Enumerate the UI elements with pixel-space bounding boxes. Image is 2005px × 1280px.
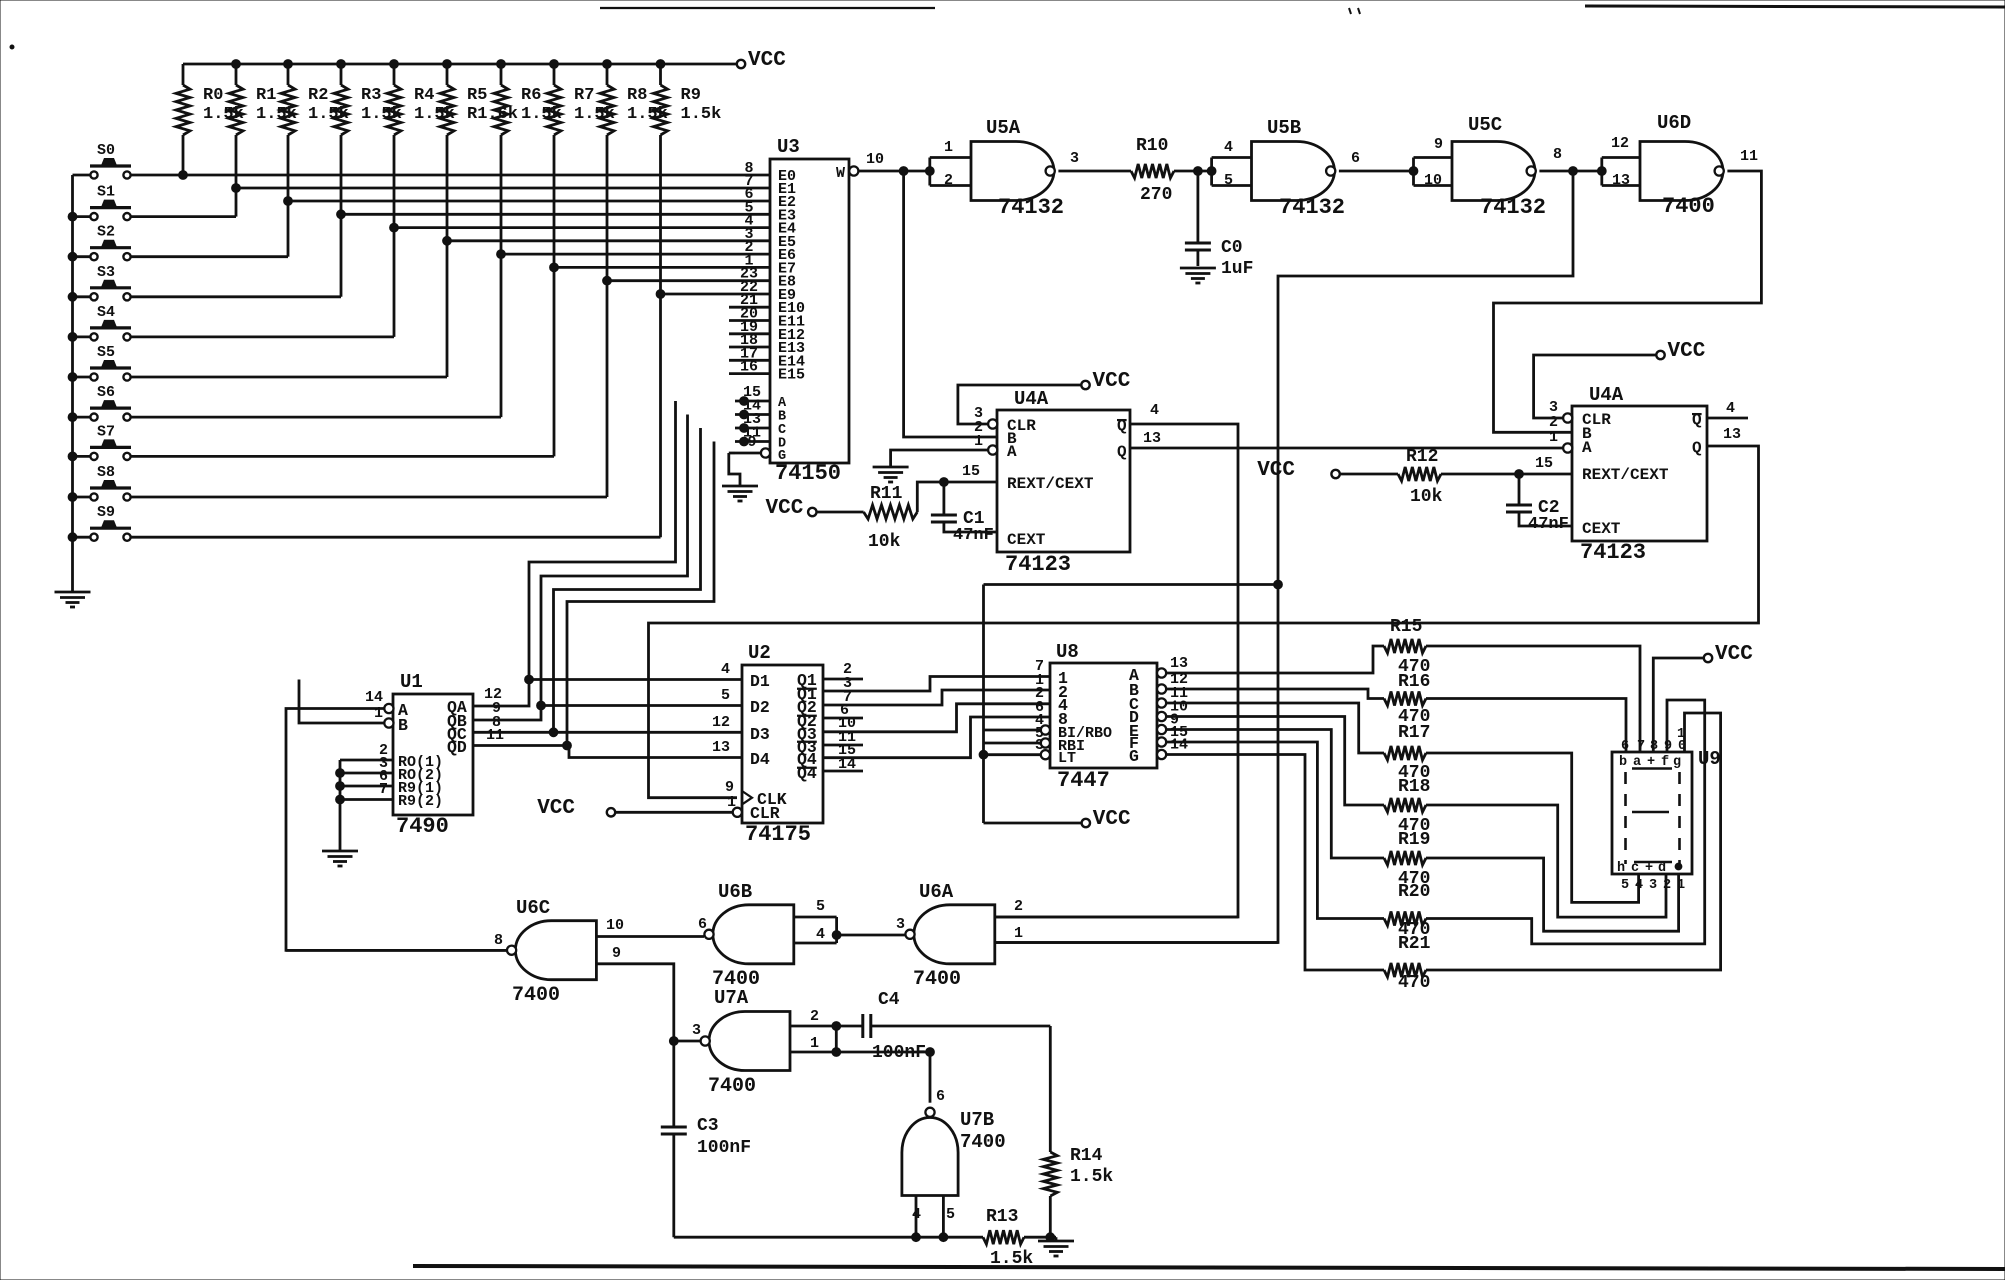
- wire U8 G to R21: [1166, 755, 1384, 971]
- svg-text:R14: R14: [1070, 1146, 1103, 1166]
- wire W output to U5A: [858, 167, 930, 176]
- U3 pin E3 stub (pin 5): [735, 199, 770, 216]
- svg-text:LT: LT: [1058, 750, 1076, 767]
- svg-text:14: 14: [365, 689, 383, 706]
- resistor R5 1.5k: [440, 60, 518, 241]
- svg-text:10: 10: [606, 917, 624, 934]
- U3 pin E2 stub (pin 6): [735, 186, 770, 203]
- wire E6 net (S6/R6 to U3): [131, 250, 735, 417]
- svg-text:10k: 10k: [868, 532, 901, 552]
- wire U8 B to R16: [1166, 689, 1384, 699]
- U1 QB (9) riser: [473, 700, 541, 720]
- svg-text:3: 3: [896, 916, 905, 933]
- NAND gate U7B 7400 (vertical): [902, 1088, 1006, 1196]
- U2 Q1 (2) stub: [823, 678, 863, 681]
- resistor R21 470: [1384, 963, 1426, 977]
- U8 LT (3) wire: [984, 750, 1051, 759]
- U3 pin E10 stub (pin 21): [729, 292, 770, 309]
- wire E5 net (S5/R5 to U3): [131, 236, 735, 377]
- U4A(right) pin B (2): [1549, 414, 1558, 431]
- wire U5B out to U5C: [1339, 170, 1414, 173]
- svg-text:D1: D1: [750, 672, 770, 691]
- switch S8: [73, 464, 132, 501]
- svg-text:U4A: U4A: [1589, 384, 1624, 406]
- capacitor C1 47nF: [931, 482, 997, 545]
- wire E9 net (S9/R9 to U3): [131, 290, 735, 538]
- wire U2 Q1-bar (3) to U8 A: [823, 677, 1050, 692]
- display U9 7-segment: [1612, 727, 1721, 893]
- U3 pin E5 stub (pin 3): [735, 226, 770, 243]
- wire select D net (QD/D4 to U3 D): [563, 442, 742, 758]
- svg-text:QD: QD: [447, 738, 467, 757]
- svg-text:10: 10: [866, 151, 884, 168]
- U6A input 1 (from U5C out): [996, 925, 1278, 943]
- resistor R13 1.5k: [983, 1207, 1050, 1269]
- NAND gate U6D 7400: [1597, 112, 1758, 219]
- NAND gate U5C 74132: [1409, 114, 1562, 220]
- svg-text:C0: C0: [1221, 238, 1243, 258]
- U3 select pin A (15): [735, 384, 770, 405]
- svg-text:74132: 74132: [1480, 195, 1546, 220]
- U8 output D (pin 10) bubble: [1157, 699, 1188, 722]
- U2 Q3-bar (11) stub: [823, 744, 863, 747]
- resistor R9 1.5k: [654, 60, 722, 294]
- U8 output E (pin 9) bubble: [1157, 712, 1179, 735]
- NAND gate U6A 7400 (mirrored): [896, 881, 995, 991]
- svg-text:Q: Q: [1117, 443, 1127, 461]
- resistor R16 470: [1384, 692, 1426, 706]
- wire E0 net (S0/R0 to U3): [131, 171, 735, 180]
- svg-text:5: 5: [816, 898, 825, 915]
- resistor R2 1.5k: [281, 60, 349, 201]
- svg-text:R15: R15: [1390, 617, 1422, 637]
- wire E3 net (S3/R3 to U3): [131, 210, 735, 297]
- U3 pin E15 stub (pin 16): [729, 359, 770, 376]
- U3 pin E9 stub (pin 22): [735, 279, 770, 296]
- U1 QC (8) line = D3: [473, 714, 554, 732]
- svg-text:4: 4: [1726, 400, 1735, 417]
- svg-text:8: 8: [1650, 739, 1658, 754]
- svg-text:R18: R18: [1398, 777, 1430, 797]
- wire U6D out to right U4A B input: [1494, 171, 1762, 432]
- wire U8 C to R17: [1166, 703, 1384, 753]
- svg-text:R21: R21: [1398, 934, 1431, 954]
- wire LT/VCC vertical: [979, 585, 1131, 832]
- svg-text:E15: E15: [778, 367, 805, 384]
- U8 output B (pin 12) bubble: [1157, 671, 1188, 694]
- svg-text:A: A: [1582, 439, 1592, 457]
- wire E1 net (S1/R1 to U3): [131, 184, 735, 217]
- svg-text:6: 6: [698, 916, 707, 933]
- resistor R10 270: [1131, 136, 1174, 205]
- U2 CLR (1) VCC: [537, 797, 742, 820]
- U1 QA (12) to D1 line: [473, 680, 529, 707]
- svg-text:R7: R7: [574, 86, 594, 105]
- svg-text:4: 4: [816, 926, 825, 943]
- wire C4 to R14: [1049, 1026, 1052, 1152]
- NAND gate U6C 7400 (mirrored): [494, 897, 596, 1007]
- IC U4A 74123 (left): [997, 388, 1130, 577]
- wire R16 to display pin6 b: [1426, 699, 1626, 753]
- svg-text:U7A: U7A: [714, 987, 749, 1009]
- svg-text:4: 4: [912, 1206, 921, 1223]
- IC U4A 74123 (right): [1572, 384, 1707, 565]
- svg-text:U9: U9: [1698, 748, 1721, 770]
- svg-text:U4A: U4A: [1014, 388, 1049, 410]
- svg-text:3: 3: [692, 1022, 701, 1039]
- U3 pin E0 stub (pin 8): [735, 160, 770, 177]
- svg-text:7400: 7400: [708, 1075, 756, 1098]
- wire R20 to display pin9 f: [1426, 700, 1705, 944]
- svg-text:B: B: [398, 716, 408, 735]
- resistor R1 1.5k: [229, 60, 297, 188]
- svg-text:U6B: U6B: [718, 881, 752, 903]
- U3 pin E6 stub (pin 2): [735, 239, 770, 256]
- U8 input pin numbers: [1035, 658, 1044, 754]
- resistor R18 470: [1384, 798, 1426, 812]
- svg-text:S1: S1: [97, 184, 115, 201]
- svg-text:74123: 74123: [1005, 552, 1071, 577]
- svg-text:4: 4: [1224, 139, 1233, 156]
- resistor ladder labels: [1390, 617, 1431, 993]
- scan artifact ticks: [1349, 8, 1360, 14]
- wire bottom net C3 to R13: [674, 1236, 983, 1239]
- svg-text:S8: S8: [97, 464, 115, 481]
- resistor R17 470: [1384, 746, 1426, 760]
- svg-text:U2: U2: [748, 642, 771, 664]
- U3 select pin D (11): [735, 425, 770, 446]
- svg-text:S7: S7: [97, 423, 115, 440]
- svg-text:9: 9: [1434, 136, 1443, 153]
- U6B inputs 5/4 tie: [794, 898, 905, 943]
- svg-text:VCC: VCC: [1093, 808, 1131, 831]
- NAND gate U7A 7400 (mirrored): [692, 987, 790, 1098]
- U4A(left) pin B (2) wire from W: [904, 171, 997, 437]
- svg-text:1: 1: [374, 705, 383, 722]
- svg-text:100nF: 100nF: [872, 1043, 926, 1063]
- svg-text:7447: 7447: [1057, 768, 1110, 793]
- U7A output to C3/U6C9 node: [669, 1037, 700, 1046]
- wire R19 to display pin1 e: [1426, 858, 1679, 931]
- svg-text:R9: R9: [681, 86, 701, 105]
- svg-text:11: 11: [486, 727, 504, 744]
- U6C input 9 wire: [596, 945, 673, 1041]
- svg-text:R16: R16: [1398, 672, 1430, 692]
- wire R17 to display pin4 c: [1426, 753, 1639, 902]
- svg-text:7: 7: [379, 781, 388, 798]
- svg-text:U5C: U5C: [1468, 114, 1502, 136]
- svg-text:R0: R0: [203, 86, 223, 105]
- svg-text:2: 2: [810, 1008, 819, 1025]
- svg-text:2: 2: [1663, 878, 1671, 893]
- svg-text:6: 6: [1351, 150, 1360, 167]
- capacitor C3 100nF: [661, 1041, 751, 1237]
- resistor R4 1.5k: [387, 60, 455, 228]
- capacitor C0 1uF: [1185, 171, 1254, 279]
- resistor R6 1.5k: [494, 60, 562, 255]
- svg-text:VCC: VCC: [765, 497, 803, 520]
- svg-text:R2: R2: [308, 86, 328, 105]
- U4A(right) pin A (1): [1549, 429, 1572, 453]
- svg-text:U6A: U6A: [919, 881, 954, 903]
- U4A(right) output Q-bar (4) stub: [1707, 400, 1748, 418]
- wire U8 F to R20: [1166, 742, 1384, 919]
- VCC rail (top): [183, 49, 786, 72]
- svg-text:g: g: [1673, 755, 1681, 770]
- IC U3 74150 multiplexer: [770, 136, 849, 486]
- scan artifact bottom page line: [413, 1266, 2005, 1269]
- svg-text:5: 5: [1621, 878, 1629, 893]
- svg-text:S2: S2: [97, 224, 115, 241]
- svg-text:13: 13: [1170, 655, 1188, 672]
- svg-text:12: 12: [712, 714, 730, 731]
- IC U2 74175 latch: [742, 642, 823, 847]
- switch S3: [73, 264, 132, 301]
- svg-text:4: 4: [1150, 402, 1159, 419]
- svg-text:12: 12: [1611, 135, 1629, 152]
- svg-text:W: W: [836, 165, 845, 182]
- svg-text:1: 1: [1677, 878, 1685, 893]
- IC U8 7447 decoder: [1050, 641, 1157, 793]
- U1 pin B (1) from QA/D1 net: [299, 680, 394, 728]
- svg-text:3: 3: [1649, 878, 1657, 893]
- scan artifact dot top-left: [10, 45, 14, 49]
- resistor R14 1.5k: [1043, 1146, 1113, 1237]
- svg-text:47nF: 47nF: [953, 526, 994, 545]
- display U9 segments: [1626, 769, 1680, 865]
- svg-text:74175: 74175: [745, 822, 811, 847]
- svg-text:S6: S6: [97, 384, 115, 401]
- svg-text:C4: C4: [878, 990, 900, 1010]
- svg-text:8: 8: [1553, 146, 1562, 163]
- VCC to display pin8 (+): [1653, 643, 1753, 752]
- U2 Q4-bar (14) stub: [823, 770, 863, 773]
- svg-text:1: 1: [1549, 429, 1558, 446]
- svg-text:R11: R11: [870, 484, 903, 504]
- svg-text:6: 6: [1621, 739, 1629, 754]
- U6A input 2 (from U4A left Q-bar): [996, 898, 1238, 917]
- svg-text:7490: 7490: [396, 814, 449, 839]
- svg-text:1.5k: 1.5k: [1070, 1167, 1113, 1187]
- wire U8 A to R15: [1166, 646, 1384, 673]
- U3 pin E12 stub (pin 19): [729, 319, 770, 336]
- wire select C net (QC/D3 to U3 C): [549, 428, 742, 737]
- switch S2: [73, 224, 132, 261]
- svg-text:74132: 74132: [998, 195, 1064, 220]
- svg-text:16: 16: [740, 359, 758, 376]
- U3 pin E14 stub (pin 17): [729, 345, 770, 362]
- NAND gate U5B 74132: [1207, 117, 1360, 220]
- switch S7: [73, 423, 132, 460]
- U8 BI/RBO (4) stub: [984, 725, 1051, 734]
- svg-text:C3: C3: [697, 1116, 719, 1136]
- wire E8 net (S8/R8 to U3): [131, 276, 735, 497]
- U7A inputs 2/1 tie + C4 node: [790, 1008, 930, 1056]
- U4A(left) output Q (13) to right U4A A: [1130, 430, 1564, 448]
- svg-text:470: 470: [1398, 973, 1430, 993]
- U6C input 10 from U6B out: [596, 917, 704, 937]
- NAND gate U5A 74132: [925, 117, 1079, 220]
- wire node line y585 (LT net): [984, 583, 1279, 586]
- svg-text:11: 11: [1740, 148, 1758, 165]
- svg-text:d: d: [1658, 861, 1666, 876]
- svg-text:+: +: [1645, 861, 1653, 876]
- wire U2 Q2 (7) to U8 B: [823, 690, 1050, 705]
- ground (U3 G): [722, 486, 758, 501]
- svg-text:VCC: VCC: [1668, 340, 1706, 363]
- svg-text:R9(2): R9(2): [398, 793, 443, 810]
- svg-text:CEXT: CEXT: [1007, 531, 1046, 549]
- switch S1: [73, 184, 132, 221]
- svg-text:U5A: U5A: [986, 117, 1021, 139]
- U3 select pin B (14): [735, 398, 770, 419]
- U1 pin A (14) from U6C out: [286, 689, 506, 950]
- U8 output A (pin 13) bubble: [1157, 655, 1188, 678]
- U3 pin E7 stub (pin 1): [735, 252, 770, 269]
- switch S5: [73, 344, 132, 381]
- resistor R20 470: [1384, 912, 1426, 926]
- svg-text:U7B: U7B: [960, 1109, 994, 1131]
- ground (U4A left A): [873, 467, 909, 482]
- resistor R0 1.5k: [176, 64, 244, 175]
- svg-text:2: 2: [1014, 898, 1023, 915]
- svg-text:1: 1: [1014, 925, 1023, 942]
- wire select B net (QB/D2 to U3 B): [537, 415, 742, 710]
- svg-text:270: 270: [1140, 185, 1172, 205]
- svg-text:6: 6: [936, 1088, 945, 1105]
- U8 output C (pin 11) bubble: [1157, 685, 1188, 708]
- U2 pin numbers left: [712, 661, 736, 811]
- svg-text:D3: D3: [750, 725, 770, 744]
- capacitor C4 100nF: [863, 990, 1051, 1063]
- svg-text:7400: 7400: [913, 968, 961, 991]
- U4A(right) pin CLR (3) + VCC wire: [1534, 340, 1706, 423]
- R13/R14 ground node: [1046, 1233, 1056, 1242]
- svg-text:9: 9: [1664, 739, 1672, 754]
- switch S4: [73, 304, 132, 341]
- svg-text:13: 13: [1612, 172, 1630, 189]
- svg-text:5: 5: [721, 687, 730, 704]
- svg-text:47nF: 47nF: [1528, 515, 1569, 534]
- U3 output pin W (10): [849, 151, 884, 176]
- wire E4 net (S4/R4 to U3): [131, 223, 735, 337]
- svg-text:5: 5: [946, 1206, 955, 1223]
- svg-text:S4: S4: [97, 304, 115, 321]
- wire R21 to display pin10 g: [1426, 713, 1721, 970]
- svg-text:R5: R5: [467, 86, 487, 105]
- U3 pin E11 stub (pin 20): [729, 306, 770, 323]
- U1 reset pins RO/R9 to ground: [336, 742, 393, 850]
- U4A(left) pin 15 REXT/CEXT + R11 10k: [765, 463, 997, 552]
- svg-text:D4: D4: [750, 750, 770, 769]
- scan artifact top line 2: [1585, 6, 2005, 7]
- svg-text:R12: R12: [1406, 447, 1438, 467]
- wire U5C out to U6D and feedback tap: [1539, 167, 1601, 176]
- svg-text:7400: 7400: [960, 1131, 1006, 1153]
- svg-text:3: 3: [1070, 150, 1079, 167]
- svg-text:14: 14: [1170, 737, 1188, 754]
- U2 Q2-bar (6) stub: [823, 717, 863, 720]
- svg-text:S9: S9: [97, 504, 115, 521]
- IC U1 7490 counter: [393, 671, 473, 839]
- wire E2 net (S2/R2 to U3): [131, 197, 735, 257]
- svg-text:R6: R6: [521, 86, 541, 105]
- svg-text:R3: R3: [361, 86, 381, 105]
- svg-text:CEXT: CEXT: [1582, 520, 1621, 538]
- svg-text:U5B: U5B: [1267, 117, 1301, 139]
- U3 select pin C (13): [735, 411, 770, 432]
- svg-text:9: 9: [747, 434, 756, 451]
- svg-text:5: 5: [1224, 172, 1233, 189]
- svg-text:7400: 7400: [1662, 194, 1715, 219]
- wire U8 D to R18: [1166, 717, 1384, 806]
- ground (switch bus): [55, 592, 91, 607]
- svg-text:VCC: VCC: [748, 49, 786, 72]
- wire R15 to display pin7 a: [1426, 646, 1640, 752]
- switch S9: [73, 504, 132, 541]
- svg-text:R13: R13: [986, 1207, 1018, 1227]
- resistor R19 470: [1384, 851, 1426, 865]
- capacitor C2 47nF: [1506, 474, 1572, 534]
- svg-text:c: c: [1631, 861, 1639, 876]
- wire U7B out (6) to U7A input node: [926, 1048, 935, 1103]
- svg-text:S3: S3: [97, 264, 115, 281]
- svg-text:D2: D2: [750, 698, 770, 717]
- U8 RBI (5) stub: [984, 738, 1051, 747]
- U7B inputs 4/5 leads: [912, 1196, 955, 1242]
- svg-text:1: 1: [944, 139, 953, 156]
- svg-text:15: 15: [1535, 455, 1553, 472]
- wire select A net (QA/D1 to U3 A): [525, 401, 742, 684]
- U8 output G (pin 14) bubble: [1157, 737, 1188, 760]
- svg-text:8: 8: [494, 932, 503, 949]
- wire U2 Q3 (10) to U8 C: [823, 704, 1050, 732]
- svg-text:G: G: [778, 449, 786, 464]
- svg-text:R19: R19: [1398, 830, 1430, 850]
- svg-text:R20: R20: [1398, 882, 1430, 902]
- svg-text:VCC: VCC: [1715, 643, 1753, 666]
- svg-text:R1: R1: [256, 86, 276, 105]
- svg-text:7400: 7400: [512, 984, 560, 1007]
- svg-text:74132: 74132: [1279, 195, 1345, 220]
- svg-text:13: 13: [712, 739, 730, 756]
- svg-text:13: 13: [1723, 426, 1741, 443]
- svg-text:S5: S5: [97, 344, 115, 361]
- svg-text:4: 4: [721, 661, 730, 678]
- svg-text:2: 2: [944, 172, 953, 189]
- U2 outputs Q1-Q4 labels: [797, 671, 817, 783]
- svg-text:b: b: [1619, 755, 1627, 770]
- wire U6C out to U1 A: [286, 949, 507, 952]
- svg-text:VCC: VCC: [1093, 370, 1131, 393]
- svg-text:Q: Q: [1692, 439, 1702, 457]
- wire R18 to display pin2 d: [1426, 805, 1666, 917]
- ground (R13/R14): [1038, 1241, 1074, 1256]
- wire R10 to U5B / C0 node: [1174, 167, 1212, 176]
- switch S6: [73, 384, 132, 421]
- ground (C0): [1180, 268, 1216, 283]
- U2 output pin numbers: [838, 661, 856, 773]
- svg-text:74150: 74150: [775, 461, 841, 486]
- resistor R15 470: [1384, 639, 1426, 653]
- U3 pin E8 stub (pin 23): [735, 266, 770, 283]
- switch ground bus: [68, 175, 77, 592]
- resistor R12 10k + VCC: [1257, 447, 1572, 507]
- resistor R3 1.5k: [334, 60, 402, 215]
- svg-text:U6D: U6D: [1657, 112, 1691, 134]
- ground (U1 reset): [322, 851, 358, 866]
- svg-text:REXT/CEXT: REXT/CEXT: [1582, 466, 1669, 484]
